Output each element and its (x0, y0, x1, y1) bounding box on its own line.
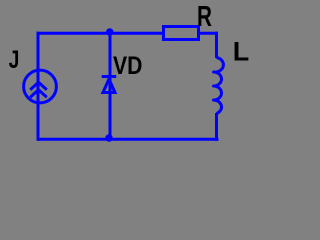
resistor R: rectangle body (164, 27, 199, 40)
node: bottom junction dot (105, 134, 113, 142)
wire: resistor right lead to top-right corner (199, 32, 219, 35)
wire: diode branch vertical (109, 33, 112, 139)
svg-text:L: L (233, 37, 250, 67)
diode VD: anode triangle pointing up (103, 79, 115, 93)
svg-text:R: R (197, 1, 212, 33)
node: top junction dot (106, 28, 114, 36)
current source J: lower arrow chevron (30, 90, 47, 98)
wire: left vertical (through current source) (37, 32, 40, 141)
current source J: upper arrow chevron (30, 82, 47, 90)
inductor L: four-arc coil (214, 58, 224, 114)
diode VD: cathode bar (102, 75, 117, 78)
wire: right vertical, corner down to inductor top (215, 32, 218, 58)
wire: top horizontal (source top to resistor left lead) (37, 32, 164, 35)
wire: bottom horizontal (37, 138, 219, 141)
svg-text:VD: VD (113, 51, 142, 79)
wire: inductor bottom to bottom-right corner (215, 113, 218, 141)
svg-text:J: J (9, 46, 20, 74)
current source J: circle body (24, 70, 57, 103)
